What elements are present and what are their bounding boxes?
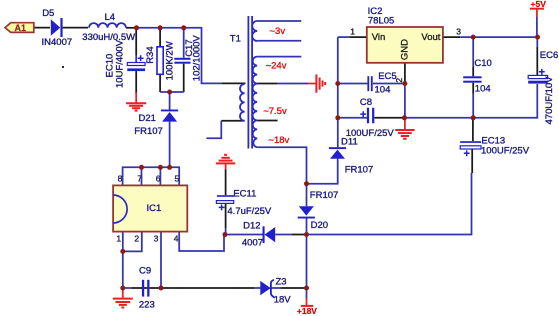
svg-text:5: 5 [175,174,180,184]
svg-text:~7.5v: ~7.5v [263,106,287,117]
svg-text:330uH/0.5W: 330uH/0.5W [82,32,135,43]
svg-text:104: 104 [375,85,391,96]
svg-text:A1: A1 [15,23,27,33]
svg-text:FR107: FR107 [310,190,339,201]
svg-text:100K/2W: 100K/2W [164,41,175,80]
svg-text:T1: T1 [230,34,241,45]
svg-text:FR107: FR107 [345,165,374,176]
svg-text:10UF/400V: 10UF/400V [115,39,126,88]
svg-text:4007: 4007 [242,237,263,248]
svg-text:Vout: Vout [421,32,440,43]
svg-text:7: 7 [137,174,142,184]
svg-text:FR107: FR107 [134,126,163,137]
svg-text:2: 2 [134,233,139,243]
svg-text:D5: D5 [42,8,54,19]
svg-text:102/1000V: 102/1000V [192,35,203,82]
svg-text:223: 223 [139,300,155,311]
svg-text:2: 2 [394,78,404,83]
svg-text:IN4007: IN4007 [42,37,73,48]
svg-text:100UF/25V: 100UF/25V [346,128,395,139]
svg-text:+5V: +5V [531,0,547,9]
svg-text:104: 104 [475,84,491,95]
svg-text:Vin: Vin [372,32,386,43]
svg-text:GND: GND [399,39,410,60]
svg-text:1: 1 [350,26,355,36]
svg-text:EC11: EC11 [233,188,256,199]
svg-text:D12: D12 [243,220,260,231]
svg-text:8: 8 [118,174,123,184]
svg-text:C10: C10 [474,58,491,69]
svg-text:~3v: ~3v [270,26,286,37]
svg-text:C8: C8 [360,97,372,108]
svg-text:L4: L4 [105,12,116,23]
svg-text:C9: C9 [139,265,151,276]
svg-text:IC1: IC1 [147,203,162,214]
svg-text:~18v: ~18v [268,135,289,146]
svg-text:3: 3 [456,26,461,36]
svg-text:D20: D20 [311,220,328,231]
svg-text:R34: R34 [145,46,156,63]
svg-text:78L05: 78L05 [368,16,394,27]
svg-text:4.7uF/25V: 4.7uF/25V [227,206,271,217]
svg-text:18V: 18V [274,294,292,305]
svg-text:4: 4 [174,233,179,243]
svg-text:Z3: Z3 [276,276,287,287]
svg-text:D21: D21 [139,113,156,124]
svg-text:3: 3 [154,233,159,243]
svg-text:1: 1 [116,233,121,243]
svg-text:EC6: EC6 [540,50,558,61]
svg-text:100UF/25V: 100UF/25V [481,145,530,156]
svg-text:470UF/10V: 470UF/10V [544,76,555,125]
svg-text:+18V: +18V [297,306,317,316]
svg-text:6: 6 [156,174,161,184]
svg-text:~24v: ~24v [266,60,287,71]
